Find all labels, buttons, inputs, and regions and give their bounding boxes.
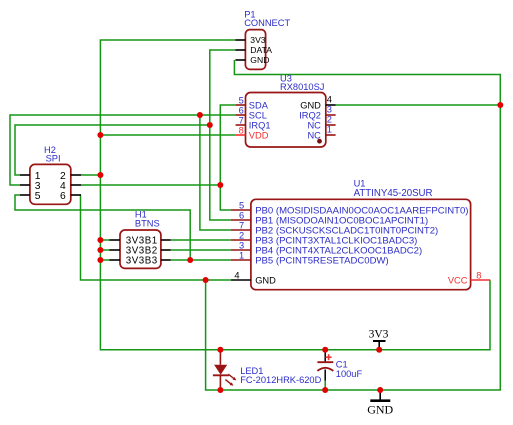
pin 8 VCC: [471, 279, 491, 281]
wire: [100, 259, 109, 261]
svg-text:5: 5: [239, 95, 244, 105]
wire: [100, 249, 109, 251]
svg-text:CONNECT: CONNECT: [244, 18, 290, 28]
junction U1 GND tee: [203, 277, 209, 283]
svg-text:GND: GND: [255, 276, 276, 286]
capacitor C1: [317, 350, 362, 381]
svg-text:8: 8: [476, 270, 481, 280]
pin 4 GND: [326, 104, 336, 106]
pin 4 GND: [231, 279, 251, 281]
pin 3 PB4: [231, 249, 251, 251]
svg-text:3: 3: [327, 105, 332, 115]
svg-text:6: 6: [239, 211, 244, 221]
svg-text:100uF: 100uF: [336, 369, 363, 379]
svg-text:2: 2: [239, 231, 244, 241]
wire VDD: [100, 134, 235, 136]
svg-text:FC-2012HRK-620D: FC-2012HRK-620D: [240, 375, 321, 385]
junction H1 B1: [97, 237, 103, 243]
svg-text:3V3: 3V3: [250, 35, 266, 45]
IC U1 ATTINY45-20SUR: [231, 179, 491, 290]
junction SCL tee: [197, 112, 203, 118]
svg-text:DATA: DATA: [250, 45, 272, 55]
pin 6 SCL: [236, 114, 246, 116]
svg-text:1: 1: [239, 251, 244, 261]
U3 origin dot: [317, 139, 322, 144]
svg-text:6: 6: [239, 105, 244, 115]
svg-text:4: 4: [234, 270, 239, 280]
svg-text:SCL: SCL: [249, 111, 267, 121]
svg-text:SPI: SPI: [46, 154, 61, 164]
svg-text:7: 7: [239, 221, 244, 231]
svg-text:IRQ2: IRQ2: [299, 111, 321, 121]
header H2 SPI: [20, 145, 81, 204]
pin 1 NC: [326, 134, 336, 136]
junction LED top: [217, 347, 223, 353]
wire H2 pin2 to 3V3: [81, 174, 100, 176]
junction H1 B3: [97, 257, 103, 263]
pin 5 PB0: [231, 209, 251, 211]
svg-text:BTNS: BTNS: [135, 219, 160, 229]
connector P1: [235, 10, 290, 70]
junction H2 pin4/SDA: [217, 182, 223, 188]
svg-text:1: 1: [327, 125, 332, 135]
pin 2 NC: [326, 124, 336, 126]
IC U3 RX8010SJ: [236, 74, 336, 148]
wire H1 right to PB4: [171, 249, 231, 251]
wire GND from P1: [206, 60, 501, 390]
svg-text:VDD: VDD: [249, 131, 269, 141]
junction H2 pin2/3V3: [97, 172, 103, 178]
pin 6 PB1: [231, 219, 251, 221]
junction H1 B2: [97, 247, 103, 253]
svg-text:3: 3: [239, 241, 244, 251]
wire 3V3 P1 horizontal: [100, 40, 490, 350]
pin 7 PB2: [231, 229, 251, 231]
ground symbol GND: [367, 390, 393, 416]
wire H2 pin5 to PB5: [15, 195, 190, 260]
svg-text:7: 7: [239, 115, 244, 125]
wire SCL tee to PB2: [200, 115, 231, 230]
junction U3 GND right rail: [497, 102, 503, 108]
svg-text:ATTINY45-20SUR: ATTINY45-20SUR: [354, 188, 433, 199]
pin 3 IRQ2: [326, 114, 336, 116]
wire C1 bottom lead green: [324, 380, 326, 390]
junction 3V3 symbol: [376, 347, 382, 353]
junction C1 bottom: [322, 387, 328, 393]
wire H2 pin6 to U1 GND: [81, 195, 232, 280]
junction LED bottom: [217, 387, 223, 393]
power symbol 3V3: [369, 328, 389, 349]
svg-text:GND: GND: [300, 101, 321, 111]
svg-text:8: 8: [239, 125, 244, 135]
svg-text:NC: NC: [307, 121, 321, 131]
junction IRQ1/DATA: [207, 122, 213, 128]
svg-text:VCC: VCC: [448, 276, 468, 286]
pin 8 VDD: [236, 134, 246, 136]
pin 7 IRQ1: [236, 124, 246, 126]
pin 2 PB3: [231, 239, 251, 241]
wire DATA net: [210, 50, 236, 220]
wire SCL net: [10, 115, 236, 185]
svg-text:6: 6: [60, 191, 66, 202]
svg-text:RX8010SJ: RX8010SJ: [280, 82, 324, 92]
pin 1 PB5: [231, 259, 251, 261]
wire IRQ1 net: [15, 125, 210, 175]
svg-text:3V3B3: 3V3B3: [126, 256, 158, 267]
junction PB5 tee: [187, 257, 193, 263]
svg-text:IRQ1: IRQ1: [249, 121, 271, 131]
junction VDD/3V3: [97, 132, 103, 138]
svg-text:3V3: 3V3: [369, 328, 389, 340]
junction GND symbol: [377, 387, 383, 393]
LED LED1: [213, 350, 322, 390]
wire H1 right to PB5: [171, 259, 231, 261]
svg-text:4: 4: [327, 94, 332, 104]
wire U3 GND to right rail: [336, 104, 501, 106]
wire H1 left stubs to 3V3 rail: [100, 239, 109, 241]
header H1 BTNS: [109, 209, 170, 268]
svg-text:PB5 (PCINT5RESETADC0DW): PB5 (PCINT5RESETADC0DW): [255, 256, 389, 267]
wire H1 right to PB3: [171, 239, 231, 241]
svg-text:2: 2: [327, 115, 332, 125]
svg-text:5: 5: [35, 191, 41, 202]
wire H2 pin4 to SDA vertical: [81, 184, 220, 186]
wire SDA net: [220, 105, 235, 210]
svg-text:SDA: SDA: [249, 101, 269, 111]
svg-text:5: 5: [239, 201, 244, 211]
junction C1 top: [322, 347, 328, 353]
svg-text:GND: GND: [367, 402, 393, 416]
pin 5 SDA: [236, 104, 246, 106]
svg-text:GND: GND: [250, 55, 269, 65]
